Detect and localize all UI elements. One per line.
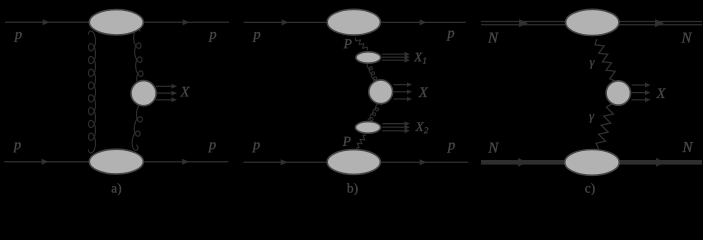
arrowhead on top-right nucleon line (c): [655, 19, 664, 27]
label p top-right (a): [209, 32, 217, 42]
label p bottom-right (b): [447, 143, 455, 153]
label Pomeron upper (b): [344, 39, 352, 48]
label gamma upper (c): [590, 60, 595, 68]
label Pomeron lower (b): [343, 137, 351, 146]
blob: central X production vertex (c): [606, 81, 630, 105]
label p bottom-left (a): [13, 142, 21, 152]
wire: outgoing nucleon thick line bottom-right (c): [618, 160, 702, 165]
arrows: X decay products (a): [156, 84, 177, 103]
photon zigzag upper (c): [595, 39, 615, 81]
arrowhead on top-left proton line (b): [282, 19, 289, 25]
label X1 (b): [414, 53, 426, 64]
label p top-right (b): [447, 31, 455, 41]
arrowhead on bottom-right nucleon line (c): [656, 158, 665, 167]
gluon coil: X blob to X2 blob (b): [368, 103, 381, 120]
blob: central X production vertex (b): [369, 80, 393, 104]
wire: outgoing proton line bottom-right (b): [381, 161, 469, 163]
arrows: X decay products (c): [632, 83, 651, 103]
pomeron zigzag lower (b): [356, 135, 366, 149]
label N top-left (c): [488, 33, 499, 43]
arrowhead on bottom-right proton line (a): [182, 159, 189, 165]
wire: outgoing proton line top-right (b): [380, 21, 465, 23]
label X (a): [180, 87, 190, 96]
gluon coil: X1 blob to X blob (b): [367, 62, 377, 82]
label N bottom-left (c): [488, 143, 499, 153]
wire: incoming nucleon thick line bottom-left (c): [481, 160, 566, 165]
blob: X1 production vertex (b): [356, 52, 381, 63]
blob: upper nucleon vertex (c): [566, 9, 619, 35]
label gamma lower (c): [589, 114, 594, 122]
photon zigzag lower (c): [596, 104, 613, 149]
blob: upper proton vertex (a): [89, 10, 143, 35]
label p top-left (b): [253, 32, 261, 42]
blob: upper proton vertex (b): [327, 9, 380, 35]
arrows: X2 decay products (b): [382, 121, 410, 133]
label p bottom-left (b): [252, 142, 260, 152]
wire: incoming proton line bottom-left (a): [4, 161, 90, 163]
blob: lower proton vertex (b): [327, 150, 380, 175]
wire: incoming nucleon double line top-left (c): [481, 22, 566, 25]
arrowhead on bottom-left nucleon line (c): [518, 158, 527, 167]
wire: outgoing proton line top-right (a): [143, 21, 229, 23]
label X (c): [656, 89, 666, 98]
blob: lower proton vertex (a): [89, 149, 143, 174]
wire: incoming proton line top-left (a): [5, 21, 90, 23]
arrows: X decay products (b): [394, 82, 413, 101]
wire: incoming proton line top-left (b): [244, 21, 328, 23]
gluon coil lower-right: X blob to bottom blob (a): [132, 103, 144, 151]
arrows: X1 decay products (b): [382, 52, 410, 63]
blob: central X production vertex (a): [131, 81, 156, 106]
caption a): [112, 183, 121, 195]
label X (b): [418, 88, 428, 97]
wire: incoming proton line bottom-left (b): [243, 161, 328, 163]
label N top-right (c): [681, 33, 692, 43]
label X2 (b): [415, 122, 428, 133]
gluon coil left vertical (a): [89, 31, 96, 153]
label p bottom-right (a): [208, 142, 216, 152]
pomeron zigzag upper (b): [356, 38, 368, 51]
caption c): [585, 183, 594, 195]
wire: outgoing nucleon double line top-right (c): [619, 22, 702, 25]
arrowhead on top-right proton line (a): [183, 19, 190, 25]
wire: outgoing proton line bottom-right (a): [143, 161, 229, 163]
caption b): [347, 183, 358, 195]
gluon coil upper-right: top blob to X blob (a): [134, 29, 143, 81]
arrowhead on top-left proton line (a): [43, 19, 50, 25]
arrowhead on top-right proton line (b): [420, 19, 427, 25]
label p top-left (a): [14, 32, 22, 42]
blob: X2 production vertex (b): [355, 122, 380, 134]
label N bottom-right (c): [682, 142, 693, 152]
arrowhead on bottom-left proton line (b): [281, 159, 288, 165]
arrowhead on top-left nucleon line (c): [519, 19, 528, 27]
blob: lower nucleon vertex (c): [565, 150, 620, 176]
arrowhead on bottom-left proton line (a): [42, 159, 49, 165]
arrowhead on bottom-right proton line (b): [420, 159, 427, 165]
